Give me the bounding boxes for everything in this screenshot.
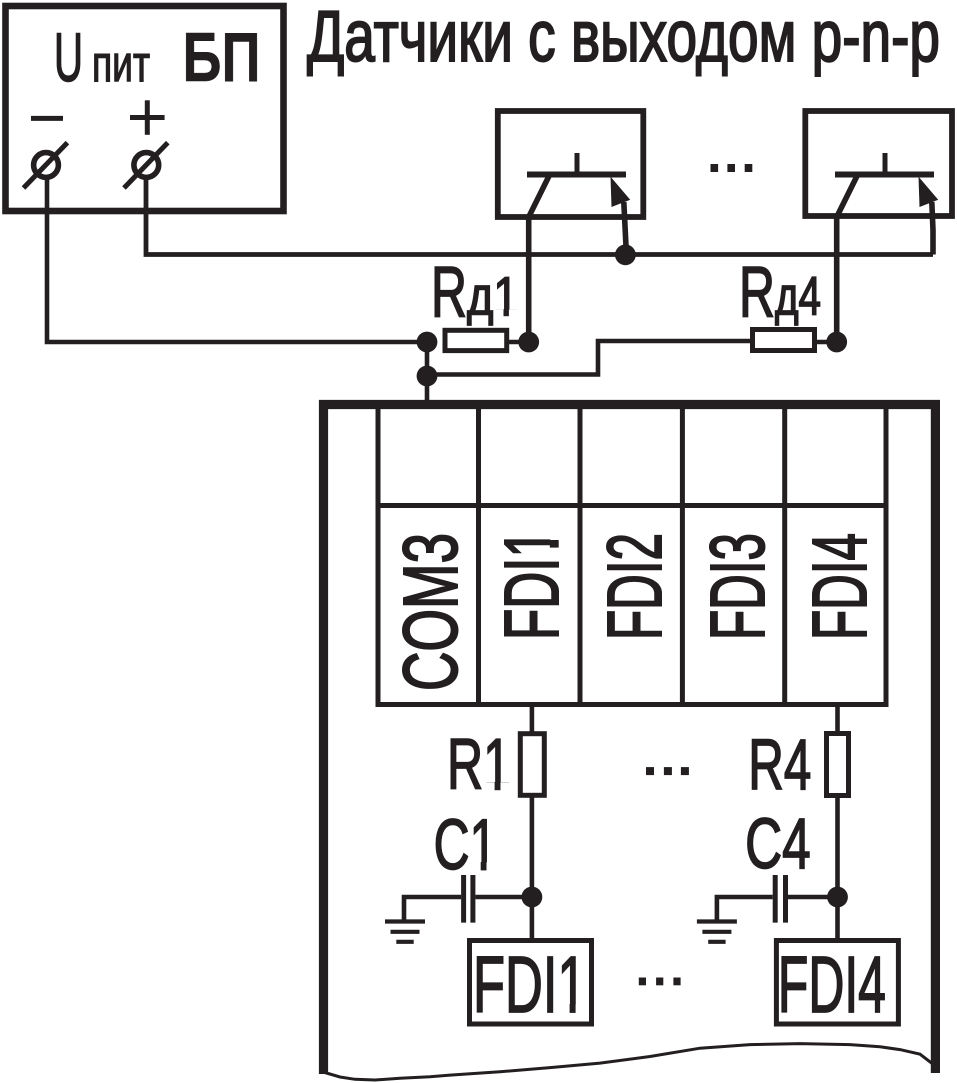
wire C4 right plate to junction: [788, 895, 838, 900]
wire C1 right plate to junction: [475, 895, 532, 900]
ground (C4): [697, 922, 737, 942]
svg-text:COM3: COM3: [388, 533, 474, 691]
svg-text:д4: д4: [775, 267, 821, 327]
sensor 1 box: [498, 111, 644, 217]
ellipsis between sensors: [711, 164, 753, 172]
terminal divider 1: [476, 405, 481, 705]
transistor Q4 emitter arrowhead: [919, 177, 939, 207]
svg-text:FDI4: FDI4: [778, 940, 886, 1029]
svg-text:FDI1: FDI1: [473, 940, 587, 1029]
wire R1 to FDI1 input: [530, 795, 535, 940]
label Rд1: [431, 254, 519, 333]
transistor Q4 collector (to FDI4): [837, 176, 857, 342]
transistor Q1 emitter arrowhead: [611, 177, 631, 207]
junction: sensor1 emitter on plus bus: [615, 244, 636, 265]
terminal + (circle with slash): [134, 153, 159, 178]
transistor Q1 base lead: [575, 153, 580, 174]
power supply box БП: [6, 6, 284, 211]
wire plus: from + terminal down to bus: [146, 177, 933, 255]
ellipsis between FDI1 and FDI4 boxes: [639, 978, 681, 986]
capacitor C4 plates: [773, 875, 778, 923]
transistor Q1 emitter shaft: [624, 202, 627, 252]
wire C4 left plate to ground: [717, 897, 773, 921]
ground (C1): [385, 922, 425, 942]
svg-text:R: R: [739, 254, 775, 333]
junction: C4 / R4 / FDI4: [827, 887, 848, 908]
module torn bottom wave: [323, 1044, 935, 1080]
wire minus: from - terminal down and right to Rд1 left: [47, 177, 427, 342]
terminal - (circle with slash): [34, 153, 59, 178]
svg-text:FDI2: FDI2: [592, 533, 678, 640]
module outline (torn bottom): [324, 405, 936, 1075]
label Uпит: [54, 19, 150, 96]
svg-text:C1: C1: [434, 806, 498, 885]
terminal label FDI1 digit-1 foot patch (rotated): [550, 530, 561, 559]
svg-text:C4: C4: [745, 805, 811, 884]
junction: Rд1 left: [417, 332, 438, 353]
junction: Rд1 right: [518, 332, 539, 353]
terminal block outline: [378, 405, 886, 705]
ellipsis between R1 and R4: [646, 767, 689, 775]
label Rд4: [739, 254, 821, 333]
terminal block row divider: [378, 503, 886, 508]
label R1 digit-1 foot patch: [486, 782, 511, 791]
wire COM3: from Rд1-left junction down into COM3 terminal: [425, 342, 430, 406]
svg-text:д1: д1: [467, 267, 519, 327]
terminal divider 4: [782, 405, 787, 705]
resistor R4: [827, 734, 849, 796]
terminal divider 2: [578, 405, 583, 705]
FDI4 input box: [776, 941, 898, 1025]
svg-text:R1: R1: [447, 726, 511, 805]
transistor Q1 base bar: [527, 172, 626, 178]
label Rд1 digit-1 foot patch: [495, 309, 519, 316]
capacitor C1 plates: [461, 875, 466, 923]
svg-text:FDI1: FDI1: [489, 529, 575, 640]
wire minus branch to Rд4: step wire: [427, 341, 752, 375]
wire Rд1 right stub to FDI1 line: [507, 340, 529, 345]
junction: COM3 tap below Rд1 left: [417, 366, 438, 387]
resistor R1: [520, 734, 544, 796]
transistor Q4 emitter shaft (joins bus elbow): [932, 202, 933, 255]
wire C1 left plate to ground: [404, 897, 461, 921]
resistor Rд1: [445, 330, 507, 350]
svg-text:R4: R4: [748, 726, 811, 805]
svg-text:БП: БП: [183, 18, 261, 96]
wire FDI4 terminal to R4: [835, 705, 840, 736]
label C1 digit-1 foot patch: [472, 862, 497, 871]
terminal divider 3: [680, 405, 685, 705]
wire Rд4 right stub: [815, 340, 837, 345]
svg-text:FDI4: FDI4: [797, 533, 883, 640]
svg-text:FDI3: FDI3: [695, 533, 781, 640]
transistor Q4 base lead: [883, 153, 888, 174]
svg-text:U: U: [54, 19, 83, 96]
svg-text:пит: пит: [92, 35, 150, 92]
resistor Rд4: [753, 330, 815, 351]
minus sign: [31, 116, 63, 121]
svg-text:Датчики с выходом p-n-p: Датчики с выходом p-n-p: [307, 0, 940, 77]
wire FDI1 terminal to R1: [530, 705, 535, 736]
sensor 4 box: [805, 111, 952, 216]
plus sign: [130, 115, 165, 120]
junction: Rд4 right: [826, 332, 847, 353]
transistor Q4 base bar: [835, 172, 934, 178]
wire R4 to FDI4 input: [835, 796, 840, 941]
svg-text:R: R: [431, 254, 467, 333]
label FDI1 (input box) digit-1 foot patch: [560, 1004, 586, 1013]
FDI1 input box: [470, 941, 592, 1025]
transistor Q1 collector (to FDI1): [529, 176, 549, 342]
junction: C1 / R1 / FDI1: [522, 887, 543, 908]
